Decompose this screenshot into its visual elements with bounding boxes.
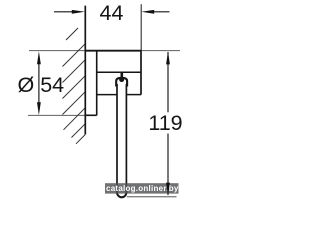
dimension 54 up arrowhead xyxy=(37,51,41,64)
rod rounded bottom xyxy=(117,190,126,198)
svg-text:Ø 54: Ø 54 xyxy=(18,73,65,97)
dimension 119 line lower segment xyxy=(167,134,169,196)
top extension line (thin) xyxy=(29,50,180,52)
holder body bottom right xyxy=(126,94,141,96)
watermark band xyxy=(105,183,179,193)
dimension 44 left arrowhead xyxy=(72,10,85,14)
front face extension line xyxy=(140,4,142,50)
dimension 119 down arrowhead xyxy=(166,183,170,196)
holder body internal line xyxy=(97,71,141,73)
pivot pin xyxy=(121,73,124,78)
dimension 119 line upper segment xyxy=(167,52,169,112)
dimension 44 left line xyxy=(54,11,74,13)
object top edge xyxy=(85,50,142,52)
dimension 44 right arrowhead xyxy=(141,10,154,14)
wall edge xyxy=(84,6,86,135)
mounting plate bottom xyxy=(85,114,97,116)
rod bottom extension line xyxy=(127,196,177,198)
bottom extension line of diameter 54 xyxy=(28,114,85,116)
dimension 54 line upper segment xyxy=(38,58,40,103)
holder body front face xyxy=(140,51,142,95)
dimension 44 right line xyxy=(153,11,170,13)
pivot knuckle dome xyxy=(116,78,127,87)
pivot crown fill xyxy=(119,77,124,82)
svg-text:44: 44 xyxy=(100,1,124,25)
dimension 119 up arrowhead xyxy=(166,51,170,64)
wall hatching xyxy=(63,28,86,144)
svg-text:119: 119 xyxy=(148,111,182,135)
holder body bottom left xyxy=(97,94,117,96)
dimension 54 down arrowhead xyxy=(37,102,41,115)
mounting plate right edge xyxy=(96,51,98,116)
rod right edge xyxy=(125,84,127,192)
rod left edge xyxy=(116,84,118,192)
